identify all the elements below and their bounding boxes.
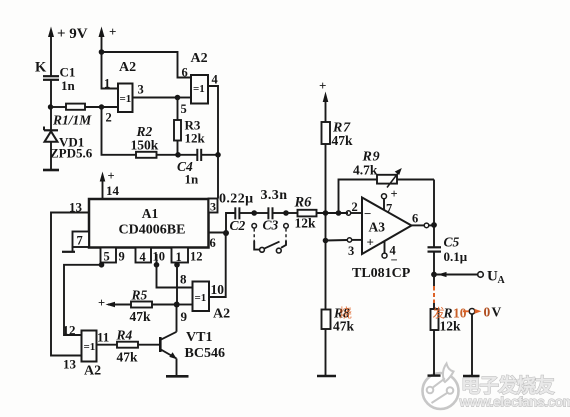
svg-text:+ 9V: + 9V (57, 26, 88, 42)
node supply junction (99, 49, 105, 55)
svg-text:A2: A2 (84, 364, 101, 379)
svg-text:12k: 12k (295, 216, 317, 231)
resistor R5 (98, 288, 177, 325)
svg-text:7: 7 (386, 202, 392, 216)
svg-text:12k: 12k (185, 131, 206, 146)
pin 6 wire (209, 233, 227, 251)
wire pin5 (178, 97, 192, 99)
svg-text:A2: A2 (119, 60, 136, 75)
svg-text:VT1: VT1 (186, 330, 212, 345)
svg-text:CD4006BE: CD4006BE (119, 223, 186, 238)
supply arrow R7 (319, 78, 328, 122)
node feedback pin2 junction (336, 210, 342, 216)
svg-text:TL081CP: TL081CP (352, 266, 411, 281)
pin5 stub (101, 263, 103, 265)
output terminal UA (434, 269, 506, 287)
ground (428, 374, 441, 376)
svg-text:C2: C2 (230, 218, 246, 233)
svg-text:K: K (35, 60, 47, 76)
capacitor C3 (254, 188, 287, 233)
svg-text:4: 4 (212, 73, 219, 87)
svg-text:5: 5 (181, 102, 187, 116)
svg-text:8: 8 (180, 272, 187, 287)
svg-text:−: − (391, 253, 398, 267)
capacitor C2 (219, 192, 254, 234)
svg-text:3: 3 (138, 83, 144, 97)
svg-text:烧: 烧 (339, 306, 352, 321)
node gate1 out junction (175, 95, 181, 101)
svg-text:U: U (487, 269, 498, 285)
resistor R2 (102, 107, 179, 158)
resistor R7 (322, 121, 354, 310)
supply arrow +9V (48, 26, 88, 76)
svg-text:1n: 1n (185, 172, 200, 187)
svg-text:14: 14 (106, 183, 120, 198)
wire pin1 (102, 52, 119, 89)
svg-text:1n: 1n (61, 78, 76, 93)
svg-text:12: 12 (63, 323, 76, 338)
svg-text:R6: R6 (294, 195, 313, 211)
pin 1 notch (172, 248, 203, 265)
svg-text:6: 6 (182, 66, 188, 80)
svg-text:C3: C3 (263, 218, 279, 233)
svg-text:www.elecfans.com: www.elecfans.com (459, 393, 570, 409)
svg-text:A1: A1 (142, 206, 159, 221)
svg-text:47k: 47k (333, 319, 355, 334)
node R7 pin2 crossing (323, 210, 329, 216)
svg-text:BC546: BC546 (185, 346, 225, 361)
node pin5 junction (99, 262, 105, 268)
resistor R9 feedback (339, 150, 435, 226)
svg-text:2: 2 (352, 200, 358, 214)
svg-text:0.22μ: 0.22μ (219, 192, 253, 207)
node pin6 junction (223, 230, 229, 236)
svg-text:V: V (492, 305, 502, 320)
svg-text:6: 6 (210, 236, 216, 250)
resistor R6 (286, 195, 348, 231)
svg-text:6: 6 (412, 212, 418, 226)
svg-text:=1: =1 (193, 83, 205, 95)
svg-text:−: − (364, 206, 371, 221)
svg-text:A2: A2 (191, 51, 208, 66)
svg-text:=1: =1 (84, 341, 96, 353)
wire gate4 output (97, 344, 118, 346)
transistor VT1 (159, 305, 225, 376)
resistor R3 (174, 98, 206, 155)
wire pin4 node to gate3 pin8 (157, 265, 193, 288)
0V terminal (463, 305, 502, 376)
svg-text:10: 10 (153, 250, 166, 264)
resistor R8 (322, 306, 355, 376)
svg-text:1: 1 (104, 77, 110, 91)
wire output pin6 (412, 212, 435, 228)
svg-text:3.3n: 3.3n (261, 188, 288, 203)
wire pin1 node down (176, 265, 178, 305)
svg-text:9: 9 (181, 309, 188, 324)
pin 14 supply arrow (100, 169, 120, 199)
wire top rail (102, 52, 192, 78)
pin 13 wire (51, 200, 89, 356)
svg-text:R4: R4 (116, 328, 133, 343)
svg-text:4: 4 (140, 250, 147, 264)
node C4 right junction (215, 152, 221, 158)
wire to A1 pin3 (217, 155, 219, 199)
svg-text:5: 5 (104, 250, 110, 264)
svg-text:12: 12 (190, 250, 203, 264)
resistor R1 (51, 104, 102, 128)
xor gate A2 fourth (63, 323, 110, 379)
wire gate3 output up (209, 233, 226, 297)
svg-text:A3: A3 (369, 220, 386, 235)
ground (166, 375, 189, 378)
wire gate2 output (208, 86, 218, 155)
wire (50, 80, 52, 107)
wire pin6 node up to C2 line (226, 213, 235, 233)
wire gate1 output (133, 97, 178, 99)
wire pin2 (102, 106, 119, 108)
svg-text:0: 0 (484, 305, 491, 320)
pin 7 notch and ground (62, 232, 89, 252)
ground (43, 169, 59, 172)
node C5 out junction (431, 272, 437, 278)
svg-text:=1: =1 (195, 292, 207, 304)
op-amp A3 (348, 198, 412, 282)
pin4-10 stub (156, 254, 158, 265)
svg-text:ZPD5.6: ZPD5.6 (50, 146, 93, 161)
capacitor C5 (428, 225, 468, 275)
zener VD1 (44, 107, 93, 169)
node pin1 junction (174, 262, 180, 268)
svg-text:R5: R5 (131, 288, 148, 303)
node R2R3 junction (175, 152, 181, 158)
capacitor C1 (35, 60, 76, 94)
pin 4 notch (136, 248, 166, 265)
svg-text:150k: 150k (131, 138, 159, 153)
svg-text:3: 3 (210, 200, 216, 214)
svg-text:C5: C5 (444, 235, 460, 250)
node C2 junction (251, 210, 257, 216)
svg-text:11: 11 (97, 330, 109, 345)
node output junction (431, 222, 437, 228)
svg-text:+: + (98, 296, 105, 310)
pin3 input circle (326, 238, 363, 242)
svg-text:A2: A2 (213, 307, 230, 322)
svg-text:+: + (391, 187, 398, 201)
pin2 input circle (346, 211, 362, 215)
svg-text:9: 9 (119, 250, 125, 264)
xor gate A2 third (180, 272, 230, 325)
svg-text:R1/1M: R1/1M (52, 113, 92, 128)
node pin2 junction (99, 104, 104, 109)
watermark logo (423, 364, 459, 410)
svg-text:4.7k: 4.7k (353, 163, 378, 178)
resistor R10 (431, 275, 467, 376)
xor gate A2 second (181, 51, 219, 116)
svg-text:10: 10 (211, 282, 225, 297)
svg-text:3: 3 (348, 244, 354, 258)
pin4 supply terminal (382, 241, 398, 267)
pin 3 notch (209, 199, 218, 214)
svg-text:13: 13 (63, 357, 77, 372)
wire gate3 pin9 (177, 304, 193, 306)
svg-text:47k: 47k (332, 133, 354, 148)
capacitor C4 (177, 149, 218, 187)
node collector junction (174, 302, 180, 308)
svg-text:12k: 12k (440, 319, 462, 334)
pin 5 notch (101, 248, 125, 264)
wire pin5 node to left rail (64, 265, 102, 335)
pin1-12 stub (176, 263, 178, 265)
svg-text:47k: 47k (117, 350, 139, 365)
pin7 supply terminal (382, 187, 398, 216)
resistor R4 (116, 328, 160, 365)
svg-text:=1: =1 (120, 93, 132, 105)
svg-text:7: 7 (77, 234, 83, 248)
range switch (252, 224, 288, 254)
svg-text:+: + (319, 78, 326, 93)
node pin4 junction (154, 262, 160, 268)
svg-text:+: + (367, 235, 374, 250)
watermark text elecfans (459, 374, 570, 409)
svg-text:47k: 47k (130, 309, 152, 324)
ground (463, 375, 480, 377)
svg-text:+: + (108, 169, 115, 183)
svg-text:1: 1 (176, 250, 182, 264)
node junction left (48, 104, 53, 109)
svg-text:发: 发 (433, 306, 446, 321)
xor gate A2 first (104, 60, 144, 125)
supply arrow top + (99, 24, 117, 52)
svg-text:+: + (109, 24, 116, 39)
ground (317, 375, 336, 377)
svg-text:A: A (498, 275, 506, 286)
svg-text:0.1μ: 0.1μ (444, 249, 468, 264)
node divider pin3 junction (323, 238, 329, 244)
svg-text:2: 2 (106, 111, 112, 125)
IC A1 CD4006BE (89, 199, 209, 248)
node C3 junction (283, 210, 289, 216)
